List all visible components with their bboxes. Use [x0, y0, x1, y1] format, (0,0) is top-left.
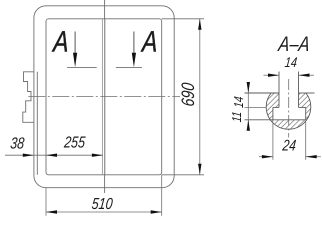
- svg-text:A: A: [51, 25, 70, 58]
- svg-text:A–A: A–A: [276, 33, 311, 56]
- svg-text:A: A: [140, 25, 159, 58]
- svg-text:11: 11: [230, 111, 244, 123]
- svg-text:255: 255: [62, 134, 86, 152]
- svg-text:510: 510: [91, 196, 114, 214]
- svg-text:14: 14: [232, 95, 246, 108]
- svg-text:14: 14: [284, 55, 298, 71]
- svg-text:24: 24: [281, 136, 297, 154]
- svg-text:690: 690: [179, 82, 199, 108]
- svg-text:38: 38: [9, 135, 25, 153]
